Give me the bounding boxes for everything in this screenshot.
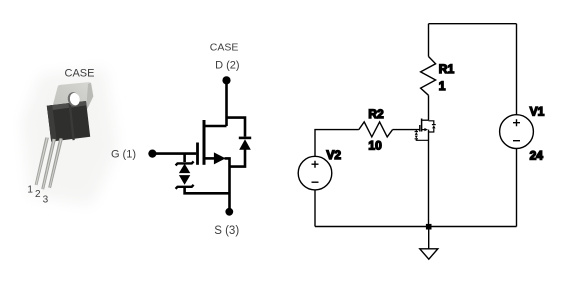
package leg 1 (35, 137, 49, 185)
zener 2 triangle (179, 175, 190, 185)
ground stem (428, 227, 430, 249)
gate terminal dot (148, 150, 156, 158)
junction dot (426, 224, 432, 230)
source V1 circle (500, 115, 534, 149)
resistor R1 (421, 57, 436, 96)
ground triangle (420, 249, 438, 259)
zener 1 cathode bar (176, 161, 194, 165)
package plastic body (47, 101, 90, 142)
wire R2 to V2 (315, 130, 359, 157)
source corner wire (225, 158, 230, 208)
transistor Q1 zener bar 1 (415, 131, 418, 133)
package tab hole rim (66, 91, 80, 107)
svg-text:S (3): S (3) (214, 225, 239, 237)
wire right rail bottom (516, 149, 518, 227)
wire bottom rail (315, 226, 517, 228)
svg-text:CASE: CASE (210, 42, 239, 54)
transistor Q1 zener triangle 2 (415, 136, 418, 139)
resistor R2 (359, 122, 393, 137)
wire right rail top (516, 24, 518, 115)
source terminal dot (225, 208, 233, 216)
wire top left drop (428, 24, 430, 57)
transistor Q1 zener branch (416, 130, 428, 141)
package body mold edge (69, 103, 75, 140)
gate plate (196, 143, 199, 165)
package leg 3 (48, 138, 63, 188)
transistor Q1 arrow (424, 128, 428, 131)
schematic circuit group (298, 24, 544, 260)
transistor Q1 gate plate (419, 125, 421, 132)
transistor Q1 body diode triangle (432, 125, 435, 128)
package metal tab (52, 82, 93, 119)
svg-text:10: 10 (368, 139, 382, 153)
source V2 circle (298, 156, 332, 190)
source V1 minus (513, 140, 520, 142)
MOSFET symbol detail group (111, 42, 251, 238)
wire top rail (429, 23, 517, 25)
wire R1 to Q1 (428, 95, 430, 120)
zener branch wire (183, 154, 186, 162)
body diode top branch (227, 118, 246, 137)
wire V2 bottom (314, 190, 316, 227)
drain terminal dot (222, 76, 230, 84)
svg-text:CASE: CASE (65, 67, 95, 79)
package leg 2 (41, 139, 56, 190)
source V1 plus (513, 119, 520, 126)
package tab right side edge (86, 83, 93, 112)
body diode cathode bar (239, 137, 251, 140)
drain wire (225, 82, 228, 126)
package tab hole (69, 92, 81, 106)
transistor Q1 arrow stub (422, 129, 425, 131)
zener 1 triangle (179, 164, 190, 174)
TO-220 package photo group (22, 67, 118, 205)
transistor Q1 body diode (429, 121, 434, 125)
svg-text:R2: R2 (368, 107, 384, 121)
source V2 minus (312, 181, 319, 183)
body diode bottom branch (230, 150, 246, 167)
svg-text:1: 1 (27, 185, 33, 196)
svg-text:24: 24 (530, 149, 544, 163)
package body left facet (47, 105, 57, 142)
svg-text:R1: R1 (439, 62, 455, 76)
drain stub to channel (204, 125, 227, 128)
svg-text:G (1): G (1) (111, 149, 136, 161)
source arrow head (214, 152, 226, 164)
zener 2 anode bar (176, 185, 194, 189)
transistor Q1 zener bar 2 (415, 138, 418, 140)
package body top bevel (47, 101, 87, 111)
svg-text:2: 2 (35, 189, 41, 200)
transistor Q1 source wire (428, 130, 430, 227)
channel line (203, 120, 206, 165)
transistor Q1 body diode return (429, 128, 434, 132)
source V2 plus (312, 161, 319, 168)
photo backdrop (22, 68, 118, 205)
svg-text:V2: V2 (326, 148, 341, 162)
transistor Q1 channel (421, 119, 423, 132)
wire gate left (393, 129, 420, 131)
zener bottom wire (185, 187, 230, 194)
transistor Q1 zener triangle 1 (415, 132, 418, 135)
svg-text:3: 3 (43, 195, 49, 206)
svg-text:V1: V1 (530, 105, 545, 119)
body diode triangle (239, 139, 251, 150)
svg-text:D (2): D (2) (215, 59, 239, 71)
source arrow stub (206, 157, 215, 160)
transistor Q1 drain stub (422, 119, 429, 121)
gate wire (153, 152, 197, 155)
svg-text:1: 1 (439, 79, 446, 93)
transistor Q1 body diode bar (432, 124, 436, 126)
